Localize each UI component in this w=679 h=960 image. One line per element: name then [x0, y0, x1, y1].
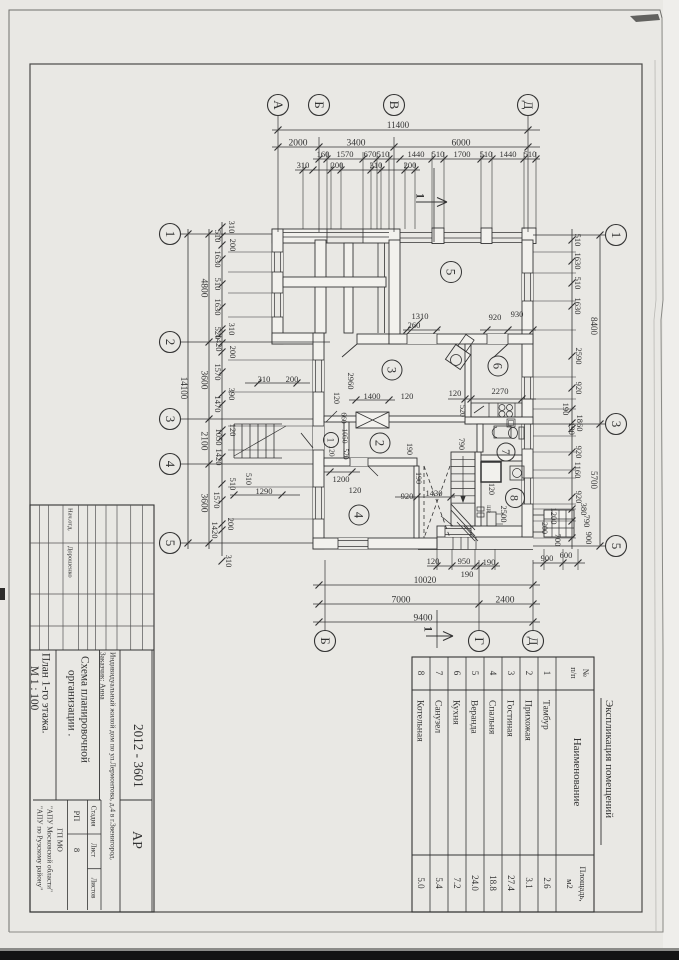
svg-text:920: 920 — [401, 491, 414, 501]
svg-text:310: 310 — [227, 221, 237, 234]
svg-text:2012 - 3601: 2012 - 3601 — [131, 724, 146, 788]
svg-text:3600: 3600 — [199, 494, 209, 513]
svg-text:2.6: 2.6 — [542, 877, 552, 889]
axis circle 3 — [160, 409, 181, 430]
stair down arrow — [462, 456, 464, 499]
toilet — [519, 427, 524, 439]
interior dims stairs — [395, 496, 455, 498]
entrance door leaf — [301, 433, 313, 448]
svg-text:190: 190 — [483, 557, 496, 567]
svg-text:3: 3 — [163, 416, 178, 423]
axis number circles right — [533, 234, 605, 236]
stair dashed opening cross — [424, 466, 450, 538]
svg-text:920: 920 — [489, 312, 502, 322]
interior dims room5 bottom — [403, 329, 440, 331]
interior dims kitchen — [448, 398, 536, 400]
svg-text:3400: 3400 — [347, 138, 366, 148]
svg-text:ГП МО: ГП МО — [55, 828, 64, 852]
title block small grid (rev/sign rows) — [39, 505, 41, 650]
dim chain left overall 14100 — [187, 229, 189, 549]
kitchen sink symbol — [474, 406, 484, 413]
svg-text:2: 2 — [163, 339, 178, 346]
svg-text:Индивидуальный жилой дом по ул: Индивидуальный жилой дом по ул.Лермонтов… — [108, 652, 117, 860]
wall: axis B upper segment through hoz-block — [315, 240, 326, 333]
svg-text:190: 190 — [414, 472, 423, 484]
axis circle Г — [469, 631, 490, 652]
room circle 6 — [488, 356, 508, 376]
svg-text:7: 7 — [499, 449, 511, 455]
svg-text:Д: Д — [521, 101, 536, 110]
svg-text:1050: 1050 — [340, 429, 349, 444]
svg-text:5.4: 5.4 — [434, 877, 444, 889]
svg-text:1420: 1420 — [210, 522, 220, 539]
joints at stair exit — [452, 537, 454, 550]
svg-text:5: 5 — [443, 269, 458, 276]
dim chain bottom 9400 — [313, 621, 540, 623]
bath washbasin — [494, 426, 511, 438]
svg-text:Стадия: Стадия — [90, 806, 97, 827]
left extension stubs — [228, 251, 272, 253]
room circle 5 — [441, 262, 462, 283]
svg-text:1630: 1630 — [573, 253, 583, 270]
svg-text:670: 670 — [364, 149, 377, 159]
svg-text:950: 950 — [458, 556, 471, 566]
svg-text:ЩР: ЩР — [485, 505, 490, 513]
svg-text:В: В — [387, 101, 402, 110]
svg-text:1290: 1290 — [256, 486, 273, 496]
svg-text:310: 310 — [224, 555, 234, 568]
small appliance squares — [507, 419, 515, 427]
svg-text:790: 790 — [457, 438, 466, 450]
hoz-block middle vertical wall — [344, 243, 353, 333]
svg-text:1050: 1050 — [214, 429, 224, 446]
dim chain right openings — [571, 229, 573, 549]
svg-text:900: 900 — [541, 553, 554, 563]
stair break diagonals — [451, 504, 475, 530]
svg-text:3: 3 — [385, 367, 399, 373]
dim chain left axes — [208, 229, 210, 549]
svg-text:1420: 1420 — [214, 335, 224, 352]
svg-text:510: 510 — [377, 149, 390, 159]
svg-text:6000: 6000 — [452, 138, 471, 148]
axis circle Б — [309, 95, 330, 116]
svg-text:24.0: 24.0 — [470, 875, 480, 891]
svg-text:5: 5 — [163, 540, 178, 547]
svg-text:2590: 2590 — [574, 348, 584, 365]
svg-text:Дорошенко: Дорошенко — [67, 546, 74, 578]
dim chain top 310/200 — [295, 169, 420, 171]
svg-text:9400: 9400 — [414, 613, 433, 623]
svg-text:660: 660 — [339, 412, 348, 424]
back slab edge line — [418, 549, 533, 551]
door veranda-kitchen (920) — [487, 334, 508, 344]
svg-text:7.2: 7.2 — [452, 877, 462, 888]
bottom extension stubs — [436, 549, 438, 570]
svg-text:АР: АР — [129, 831, 144, 849]
svg-text:2500: 2500 — [499, 506, 509, 523]
svg-text:3.1: 3.1 — [524, 877, 534, 888]
axis circle 1 — [160, 224, 181, 245]
room circle 7 — [497, 443, 515, 461]
svg-text:190: 190 — [461, 569, 474, 579]
svg-text:120: 120 — [487, 483, 496, 495]
wall segment left of axis V under hoz-block — [357, 334, 400, 344]
svg-text:5700: 5700 — [589, 471, 599, 490]
svg-text:8: 8 — [508, 495, 522, 501]
svg-text:План 1-го этажа.: План 1-го этажа. — [39, 653, 51, 734]
axis circle Д — [518, 95, 539, 116]
stair flight — [451, 452, 475, 526]
svg-text:А: А — [271, 100, 286, 110]
window in B wall lower — [313, 487, 324, 519]
washing machine — [510, 466, 524, 480]
partition room2/room4 (axis 4) — [324, 458, 417, 466]
room circle 2 — [370, 433, 390, 453]
entrance door opening in B wall — [313, 426, 324, 450]
axis circle 2 — [160, 332, 181, 353]
svg-text:2960: 2960 — [346, 373, 356, 390]
svg-text:2400: 2400 — [496, 595, 515, 605]
interior dims hall — [324, 471, 360, 473]
svg-text:190: 190 — [567, 422, 577, 435]
axis circle В — [384, 95, 405, 116]
axis circle А — [268, 95, 289, 116]
svg-text:организации .: организации . — [65, 670, 77, 736]
svg-text:3: 3 — [609, 421, 624, 428]
svg-text:120: 120 — [401, 391, 414, 401]
svg-text:"АПУ по Рузскому району": "АПУ по Рузскому району" — [35, 806, 43, 890]
wall: stair left partition — [414, 466, 419, 538]
room circle 3 — [382, 360, 402, 380]
svg-text:14100: 14100 — [179, 377, 189, 400]
svg-text:2: 2 — [524, 671, 534, 676]
svg-text:5: 5 — [470, 671, 480, 676]
svg-text:11400: 11400 — [387, 120, 410, 130]
axis circle 5 — [606, 536, 627, 557]
svg-text:8: 8 — [416, 671, 426, 676]
svg-text:900: 900 — [584, 532, 594, 545]
dim chain bottom 120/950/190 — [427, 565, 500, 567]
svg-text:1630: 1630 — [213, 299, 223, 316]
stove unit at hall corner — [445, 344, 470, 369]
dim chain top openings — [313, 158, 540, 160]
drawing frame — [30, 64, 642, 912]
section mark 1 top — [433, 168, 435, 242]
svg-text:120: 120 — [327, 445, 336, 457]
title block outline — [30, 505, 154, 912]
dim chain top overall 11400 — [272, 129, 540, 131]
window in top wall — [327, 230, 363, 243]
wall: top exterior (axis 1) — [272, 229, 400, 243]
svg-text:510: 510 — [213, 278, 223, 291]
axis circle 1 — [606, 225, 627, 246]
wall: right exterior (axis D) — [522, 240, 533, 537]
svg-text:920: 920 — [574, 491, 584, 504]
svg-text:1: 1 — [414, 193, 428, 199]
svg-text:10020: 10020 — [414, 575, 437, 585]
dim chain bottom 7000/2400 — [313, 603, 540, 605]
axis circle 3 — [606, 414, 627, 435]
svg-text:1: 1 — [325, 438, 335, 443]
kitchen counter — [471, 403, 522, 417]
door in partition — [350, 458, 368, 466]
axis number circles left — [181, 233, 272, 235]
wall: bath column left — [477, 424, 483, 452]
dim chain bottom 900/600 — [533, 562, 585, 564]
door veranda-living (1310) — [407, 334, 437, 344]
svg-text:930: 930 — [511, 309, 524, 319]
svg-text:200: 200 — [228, 239, 238, 252]
svg-text:120: 120 — [228, 424, 238, 437]
svg-text:5.0: 5.0 — [416, 877, 426, 889]
dim chain top axes 2000/3400/6000 — [272, 146, 540, 148]
room circle 8 — [506, 489, 525, 508]
svg-text:160: 160 — [317, 149, 330, 159]
room circle 4 — [349, 505, 369, 525]
svg-text:7000: 7000 — [392, 595, 411, 605]
svg-text:510: 510 — [244, 473, 253, 485]
svg-text:120: 120 — [332, 392, 341, 404]
svg-text:8: 8 — [72, 848, 82, 852]
bay/vent block bottom right — [544, 510, 574, 537]
hoz-block horizontal dividing wall — [283, 277, 386, 287]
dim chain left openings — [221, 222, 223, 556]
porch dims — [245, 382, 310, 384]
svg-text:120: 120 — [449, 388, 462, 398]
svg-text:2100: 2100 — [199, 432, 209, 451]
svg-text:310: 310 — [258, 374, 271, 384]
svg-text:Санузел: Санузел — [433, 700, 443, 733]
vent shaft hatched block — [356, 412, 389, 428]
wall: stair right / corridor (axis G) — [475, 452, 481, 526]
section mark 1 bottom — [436, 610, 438, 648]
svg-text:Г: Г — [472, 637, 487, 645]
svg-text:510: 510 — [432, 149, 445, 159]
svg-text:510: 510 — [524, 149, 537, 159]
door leaf hoz-block to living — [342, 344, 357, 357]
kitchen stove burners — [499, 405, 505, 411]
svg-text:Д: Д — [526, 637, 541, 646]
svg-text:Гостиная: Гостиная — [505, 700, 515, 737]
back door leaf — [441, 516, 453, 526]
svg-text:700: 700 — [553, 534, 563, 547]
svg-text:м2: м2 — [565, 879, 575, 889]
svg-text:Площадь,: Площадь, — [578, 866, 588, 901]
svg-text:520: 520 — [458, 405, 467, 417]
svg-text:Прихожая: Прихожая — [523, 700, 533, 741]
wall: bottom exterior right part — [437, 526, 533, 537]
svg-text:200: 200 — [404, 160, 417, 170]
svg-text:1630: 1630 — [573, 298, 583, 315]
svg-text:200: 200 — [228, 346, 238, 359]
svg-text:200: 200 — [540, 522, 549, 534]
svg-text:п/п: п/п — [569, 667, 579, 679]
svg-text:3: 3 — [506, 671, 516, 676]
window in B wall upper — [313, 360, 324, 392]
svg-text:1570: 1570 — [212, 492, 222, 509]
svg-text:510: 510 — [228, 478, 238, 491]
partition bath/boiler — [481, 455, 522, 461]
svg-text:1200: 1200 — [333, 474, 350, 484]
veranda top: posts and glazing (axis 1) — [400, 232, 533, 234]
svg-text:510: 510 — [213, 230, 223, 243]
dim chain bottom 10020 — [313, 584, 540, 586]
svg-text:Спальня: Спальня — [487, 700, 497, 735]
hoz-block flue channel lines near axis V — [377, 243, 379, 333]
svg-text:600: 600 — [560, 550, 573, 560]
room circle 1 — [324, 433, 339, 448]
svg-text:2270: 2270 — [492, 386, 509, 396]
svg-text:3600: 3600 — [199, 371, 209, 390]
svg-text:310: 310 — [370, 160, 383, 170]
svg-text:1440: 1440 — [500, 149, 517, 159]
svg-text:310: 310 — [227, 323, 237, 336]
dim chain right overall 8400/5700 — [599, 235, 601, 546]
svg-text:4: 4 — [163, 461, 178, 468]
svg-text:5: 5 — [609, 543, 624, 550]
wall: left exterior main (axis B) — [313, 333, 324, 549]
svg-text:510: 510 — [573, 277, 583, 290]
wall: bottom exterior left part (axis 5) — [313, 538, 437, 549]
svg-text:1200: 1200 — [549, 508, 559, 525]
svg-text:920: 920 — [574, 382, 584, 395]
scan smudge top-right — [630, 14, 660, 22]
svg-text:Веранда: Веранда — [469, 700, 479, 734]
svg-text:7: 7 — [434, 671, 444, 676]
svg-text:Котельная: Котельная — [415, 700, 425, 742]
svg-text:Листов: Листов — [90, 878, 97, 899]
svg-text:1430: 1430 — [426, 488, 443, 498]
tambour partition — [344, 422, 349, 458]
svg-text:1570: 1570 — [213, 364, 223, 381]
svg-text:1: 1 — [163, 231, 178, 238]
svg-text:1400: 1400 — [364, 391, 381, 401]
top extension stubs — [326, 152, 328, 229]
entrance porch steps — [233, 424, 235, 458]
wall: kitchen left — [465, 344, 471, 424]
svg-text:Лист: Лист — [90, 843, 97, 857]
svg-text:8400: 8400 — [589, 317, 599, 336]
svg-text:1: 1 — [542, 671, 552, 676]
svg-text:4800: 4800 — [199, 279, 209, 298]
svg-text:27.4: 27.4 — [506, 875, 516, 891]
svg-text:1630: 1630 — [213, 251, 223, 268]
tambour door leaf — [326, 411, 337, 422]
axis circle Д — [523, 631, 544, 652]
svg-text:200: 200 — [286, 374, 299, 384]
svg-text:1700: 1700 — [454, 149, 471, 159]
svg-text:Б: Б — [312, 101, 327, 108]
svg-text:Экспликация помещений: Экспликация помещений — [603, 700, 615, 818]
svg-text:1470: 1470 — [213, 396, 223, 413]
svg-text:510: 510 — [573, 234, 583, 247]
scan tick left edge — [0, 588, 5, 600]
svg-text:№: № — [581, 669, 591, 677]
right extension stubs — [533, 251, 576, 253]
axis circle 4 — [160, 454, 181, 475]
axis circle 5 — [160, 533, 181, 554]
svg-text:380: 380 — [579, 503, 589, 516]
title block main cells — [55, 650, 57, 800]
svg-text:2: 2 — [373, 440, 387, 446]
svg-text:790: 790 — [582, 515, 592, 528]
svg-text:260: 260 — [408, 320, 421, 330]
svg-text:Заказчик: Анна: Заказчик: Анна — [98, 652, 107, 700]
electrical board marks right of stairs — [477, 507, 484, 511]
wall: under veranda (axis 2 mid) — [389, 334, 533, 344]
svg-text:Б: Б — [318, 637, 333, 644]
svg-text:520: 520 — [341, 448, 350, 460]
svg-text:РП: РП — [72, 811, 82, 822]
svg-text:Кухня: Кухня — [451, 700, 461, 725]
svg-text:4: 4 — [488, 671, 498, 676]
wall: step between axis A and B (axis 2) — [272, 333, 324, 344]
svg-text:4: 4 — [352, 512, 366, 519]
wall: hall partition above tambour (axis 3) — [324, 416, 465, 422]
boiler block in room 8 — [481, 462, 501, 482]
svg-text:6: 6 — [491, 363, 505, 369]
svg-text:200: 200 — [331, 160, 344, 170]
svg-text:120: 120 — [427, 556, 440, 566]
axis extension lines top — [277, 116, 279, 232]
svg-text:1440: 1440 — [408, 149, 425, 159]
svg-text:Наименование: Наименование — [571, 738, 583, 807]
svg-text:1: 1 — [422, 626, 436, 632]
svg-text:190: 190 — [405, 443, 414, 455]
svg-text:"АПУ Московской области": "АПУ Московской области" — [45, 806, 53, 892]
explication table grid — [412, 657, 594, 912]
svg-text:Схема планировочной: Схема планировочной — [78, 656, 90, 763]
wall: veranda left (axis V upper) — [389, 240, 400, 344]
svg-text:М 1 : 100: М 1 : 100 — [28, 666, 40, 711]
svg-text:1: 1 — [609, 232, 624, 239]
svg-text:18.8: 18.8 — [488, 875, 498, 891]
svg-text:Нач.отд.: Нач.отд. — [67, 508, 74, 531]
svg-text:120: 120 — [349, 485, 362, 495]
wall: left exterior upper (axis A) — [272, 229, 283, 344]
axis circle Б — [315, 631, 336, 652]
svg-text:Тамбур: Тамбур — [541, 700, 552, 730]
svg-text:1420: 1420 — [214, 449, 224, 466]
svg-text:510: 510 — [480, 149, 493, 159]
axis letter circles bottom — [324, 560, 326, 630]
scan black strip bottom — [0, 951, 679, 960]
svg-text:2000: 2000 — [289, 138, 308, 148]
svg-text:1570: 1570 — [337, 149, 354, 159]
svg-text:200: 200 — [226, 518, 236, 531]
svg-text:390: 390 — [227, 388, 237, 401]
svg-text:6: 6 — [452, 671, 462, 676]
wall: kitchen/bath bottom (axis 3 right) — [465, 417, 533, 424]
